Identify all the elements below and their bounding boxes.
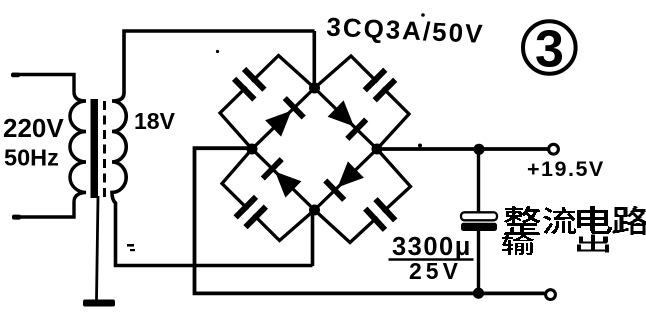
- diode D3 (bottom to left): [263, 159, 302, 198]
- wire junction down to filter cap: [477, 149, 480, 214]
- wire AC top drop to bridge top vertex: [312, 31, 316, 88]
- capacitor C5 3300u/25V electrolytic: hollow + plate: [461, 212, 497, 220]
- fraction line of capacitor label: [389, 258, 474, 261]
- svg-text:50Hz: 50Hz: [4, 145, 59, 171]
- bridge outer rectangle wires: [220, 56, 411, 243]
- node bridge right vertex: [372, 144, 383, 155]
- node bridge bottom vertex: [309, 205, 320, 216]
- node bridge left vertex: [247, 144, 258, 155]
- node bridge top vertex: [309, 83, 320, 94]
- transformer primary winding (220V side) with leads: [12, 75, 86, 218]
- figure number circle: [523, 21, 576, 74]
- capacitor C4 (parallel bottom-right): [365, 199, 395, 230]
- svg-text:18V: 18V: [134, 108, 176, 134]
- svg-text:3300μ: 3300μ: [392, 233, 472, 261]
- svg-text:25V: 25V: [409, 258, 462, 284]
- label Chinese: rectifier circuit output (zheng liu dian lu / shu chu): [502, 206, 646, 255]
- wire negative rail: left vertex, down, and bottom rail to - terminal: [195, 148, 545, 293]
- diode D4 (right to bottom): [325, 161, 364, 200]
- transformer core bar: [91, 99, 99, 198]
- terminal - output circle: [546, 290, 556, 300]
- bridge inner diamond wires: [252, 88, 377, 210]
- wire core to ground: [97, 196, 99, 300]
- node filter cap tap junction: [473, 144, 484, 155]
- capacitor C1 (parallel top-left): [234, 69, 264, 100]
- node bottom rail junction: [473, 288, 484, 299]
- wire positive output (right vertex to + terminal): [377, 147, 548, 151]
- terminal + output circle: [549, 144, 559, 154]
- wire filter cap to bottom rail: [477, 230, 480, 295]
- transformer core dashed line: [103, 101, 106, 197]
- diode D2 (top to right): [328, 100, 367, 138]
- wire artifacts/specks: [127, 13, 425, 251]
- capacitor C2 (parallel top-right): [365, 70, 395, 100]
- svg-text:+19.5V: +19.5V: [527, 157, 605, 181]
- svg-text:3: 3: [535, 21, 564, 79]
- svg-text:220V: 220V: [3, 113, 64, 143]
- wire end blobs on 220V leads: [11, 73, 21, 220]
- wire bridge bottom vertex down to secondary bottom wire: [311, 210, 315, 266]
- capacitor C3 (parallel bottom-left): [236, 197, 266, 227]
- diode D1 (left to top): [265, 98, 304, 137]
- capacitor C5 solid - plate: [461, 223, 497, 231]
- ground: [83, 300, 115, 307]
- transformer secondary winding (18V side) with top lead and AC wire to bridge top: [112, 31, 315, 266]
